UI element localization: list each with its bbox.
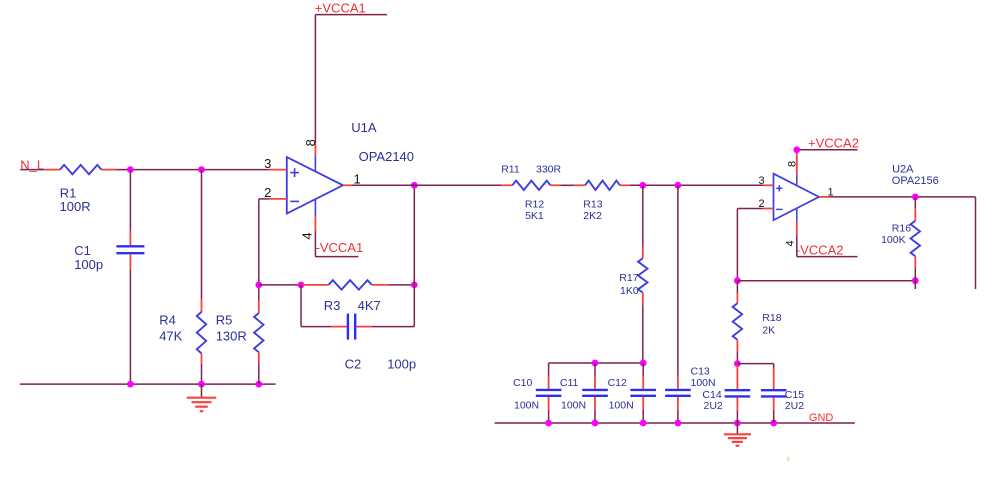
node +VCCA2 (793, 146, 800, 153)
svg-text:3: 3 (264, 156, 271, 171)
svg-text:R1: R1 (60, 185, 77, 200)
svg-text:R3: R3 (324, 298, 341, 313)
wire (736, 281, 738, 294)
artifact (787, 456, 790, 461)
wire (413, 185, 415, 326)
node rail junction R5 (255, 381, 262, 388)
op-amp U1A (287, 157, 343, 214)
pin 1 U1A (343, 184, 353, 186)
svg-text:100K: 100K (881, 234, 906, 246)
svg-text:3: 3 (758, 175, 764, 187)
capacitor C11 (594, 376, 596, 389)
resistor R18 (736, 294, 738, 304)
wire bottom rail (20, 383, 276, 385)
node R18 bottom (734, 360, 741, 367)
wire (773, 411, 775, 424)
capacitor C13 (677, 376, 679, 389)
node rail junction C1 (127, 381, 134, 388)
wire (258, 363, 260, 384)
svg-text:2U2: 2U2 (704, 400, 723, 412)
resistor R1 (44, 169, 60, 171)
resistor R4 (201, 299, 203, 312)
node feedback R3C2 (298, 282, 305, 289)
wire (314, 15, 316, 143)
wire (258, 199, 260, 285)
svg-text:R16: R16 (892, 223, 911, 235)
op-amp U2A (774, 174, 820, 220)
wire (259, 284, 301, 286)
node gnd C13 (675, 420, 682, 427)
wire (117, 169, 269, 171)
svg-text:1K0: 1K0 (620, 285, 639, 297)
wire (129, 270, 131, 385)
node gnd C15 (770, 420, 777, 427)
pin 8 U2A (796, 151, 798, 174)
wire (548, 363, 550, 376)
svg-text:1: 1 (354, 172, 361, 187)
node gnd C10 (545, 420, 552, 427)
svg-text:R18: R18 (762, 312, 781, 324)
svg-text:100p: 100p (387, 356, 416, 371)
svg-text:4K7: 4K7 (358, 298, 381, 313)
node bus C12 (640, 360, 647, 367)
node R17 top (639, 182, 646, 189)
node input junction 2 (198, 166, 205, 173)
wire (677, 410, 679, 423)
node feedback right (411, 282, 418, 289)
wire cap bus (549, 362, 644, 364)
node input junction 1 (127, 166, 134, 173)
svg-text:C1: C1 (74, 243, 91, 258)
wire (642, 410, 644, 423)
wire (737, 363, 773, 365)
wire (736, 411, 738, 424)
wire (737, 208, 763, 210)
node gnd C12 (640, 420, 647, 427)
resistor R16 (914, 209, 916, 221)
wire (677, 185, 679, 376)
pin 8 U1A (314, 143, 316, 155)
wire (129, 170, 131, 231)
svg-text:U2A: U2A (892, 163, 914, 175)
pin 3 U2A (763, 184, 773, 186)
svg-text:100R: 100R (60, 199, 91, 214)
ground (736, 423, 738, 434)
capacitor C10 (548, 376, 550, 389)
svg-text:R17: R17 (619, 272, 638, 284)
node output U2A (912, 194, 919, 201)
svg-text:2: 2 (264, 185, 271, 200)
wire (353, 184, 502, 186)
wire (914, 197, 916, 209)
node C13 top (675, 182, 682, 189)
wire (914, 268, 916, 289)
svg-text:R12: R12 (525, 198, 544, 210)
wire (300, 285, 302, 327)
svg-text:5K1: 5K1 (525, 210, 544, 222)
svg-text:R5: R5 (216, 313, 233, 328)
node rail junction R4 (198, 381, 205, 388)
wire (642, 363, 644, 376)
wire output stub (975, 197, 977, 289)
wire (301, 326, 332, 328)
pin 2 U1A (269, 198, 287, 200)
wire (773, 364, 775, 369)
capacitor C2 (332, 326, 347, 328)
svg-text:R4: R4 (159, 313, 176, 328)
resistor R17 (642, 247, 644, 258)
node bus C11 (592, 360, 599, 367)
wire (630, 184, 764, 186)
wire lower feedback (737, 280, 915, 282)
svg-text:C12: C12 (608, 377, 627, 389)
capacitor C15 (773, 369, 775, 389)
capacitor C1 (129, 231, 131, 245)
node lower right (912, 277, 919, 284)
node output junction (411, 182, 418, 189)
svg-text:2K2: 2K2 (583, 210, 602, 222)
svg-text:8: 8 (787, 161, 799, 167)
svg-text:100p: 100p (74, 257, 103, 272)
node gnd C14 (734, 420, 741, 427)
resistor R13 (574, 184, 585, 186)
wire (594, 410, 596, 423)
wire (736, 209, 738, 281)
svg-text:100N: 100N (609, 399, 634, 411)
wire (560, 184, 574, 186)
svg-text:C2: C2 (345, 356, 362, 371)
svg-text:100N: 100N (561, 399, 586, 411)
svg-text:-VCCA2: -VCCA2 (796, 243, 844, 258)
svg-text:330R: 330R (536, 164, 562, 176)
pin 2 U2A (763, 208, 773, 210)
wire (258, 285, 260, 300)
wire (796, 235, 798, 257)
resistor R12 (502, 184, 513, 186)
node lower left (734, 277, 741, 284)
svg-text:GND: GND (809, 412, 834, 424)
wire (20, 169, 44, 171)
pin 3 U1A (269, 169, 287, 171)
svg-text:47K: 47K (159, 328, 182, 343)
wire (736, 352, 738, 364)
svg-text:R11: R11 (501, 164, 520, 176)
svg-text:4: 4 (785, 240, 797, 246)
wire (548, 410, 550, 423)
wire (259, 198, 269, 200)
svg-text:2U2: 2U2 (785, 400, 804, 412)
pin 4 U2A (796, 222, 798, 236)
wire (201, 170, 203, 300)
svg-text:2K: 2K (762, 325, 775, 337)
wire (372, 326, 415, 328)
svg-text:100N: 100N (691, 377, 716, 389)
node gnd C11 (592, 420, 599, 427)
ground (201, 384, 203, 398)
svg-text:U1A: U1A (351, 120, 377, 135)
wire (642, 185, 644, 247)
svg-text:C10: C10 (513, 377, 532, 389)
wire (594, 363, 596, 376)
wire (201, 364, 203, 384)
svg-text:130R: 130R (216, 328, 247, 343)
pin 1 U2A (819, 196, 830, 198)
wire (830, 196, 976, 198)
wire (314, 231, 316, 257)
svg-text:C15: C15 (785, 389, 804, 401)
svg-text:C13: C13 (691, 366, 710, 378)
pin 4 U1A (314, 216, 316, 232)
svg-text:OPA2156: OPA2156 (892, 175, 939, 187)
svg-text:4: 4 (300, 232, 315, 239)
svg-text:100N: 100N (514, 399, 539, 411)
wire (642, 305, 644, 363)
svg-text:+VCCA2: +VCCA2 (808, 136, 859, 151)
svg-text:-VCCA1: -VCCA1 (316, 240, 364, 255)
resistor R3 (301, 284, 329, 286)
svg-text:+VCCA1: +VCCA1 (315, 1, 366, 16)
node feedback left (255, 282, 262, 289)
capacitor C14 (736, 365, 738, 389)
svg-text:C14: C14 (702, 389, 721, 401)
svg-text:C11: C11 (560, 377, 579, 389)
wire (388, 284, 414, 286)
svg-text:OPA2140: OPA2140 (359, 149, 414, 164)
capacitor C12 (642, 376, 644, 389)
wire GND rail (495, 422, 855, 424)
svg-text:R13: R13 (583, 198, 602, 210)
resistor R5 (258, 300, 260, 313)
